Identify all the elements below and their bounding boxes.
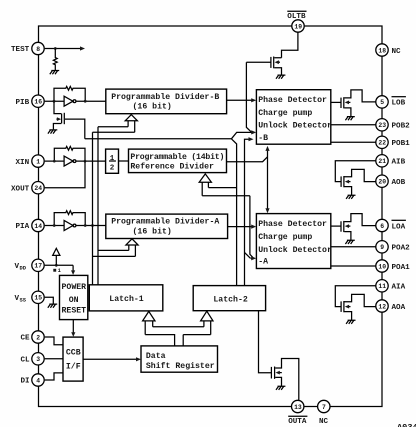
wire branch down to Latch-2 (left)	[232, 139, 237, 286]
svg-text:14: 14	[34, 223, 42, 230]
hollow arrow into Reference Divider	[199, 174, 211, 196]
svg-text:TEST: TEST	[11, 46, 30, 54]
wire Divider-B output to U-B	[227, 98, 257, 102]
wire pin 19 to Q2 drain	[282, 32, 298, 57]
pin 7 NC	[318, 400, 330, 426]
transistor Q4 (AIB/AOB amp)	[341, 169, 376, 195]
wire U-B to pin 23 POB2	[331, 124, 376, 126]
pin 6 LOA	[376, 219, 406, 231]
wire PIB buffer output to Divider-B	[76, 100, 106, 103]
svg-text:CL: CL	[21, 356, 31, 364]
svg-text:POB2: POB2	[392, 123, 411, 131]
svg-text:POWER: POWER	[62, 283, 87, 292]
svg-text:1: 1	[58, 268, 61, 274]
svg-text:PIB: PIB	[16, 99, 30, 107]
svg-text:Programmable Divider-B: Programmable Divider-B	[111, 92, 219, 102]
pin 15 VSS	[15, 291, 45, 303]
svg-text:NC: NC	[319, 418, 329, 426]
hollow arrow into Divider-B	[125, 115, 137, 133]
pin 3 CL	[21, 353, 45, 365]
svg-text:Programmable (14bit): Programmable (14bit)	[130, 152, 224, 162]
svg-text:6: 6	[380, 223, 384, 230]
svg-text:13: 13	[294, 404, 302, 411]
resistor R1 (TEST pulldown)	[53, 49, 57, 71]
svg-text:16: 16	[34, 99, 42, 106]
svg-text:1: 1	[36, 158, 40, 165]
transistor Q7 (OUTA open-drain driver)	[271, 359, 298, 401]
wire U-B to pin 22 POB1	[331, 141, 376, 143]
block: Programmable Divider-B	[106, 89, 227, 114]
wire bus v2	[97, 127, 99, 285]
pin 17 VDD	[15, 259, 45, 271]
svg-text:Reference Divider: Reference Divider	[130, 161, 214, 171]
wire PIB input node	[45, 100, 64, 103]
transistor Q1 (PIB pin driver, mirrored)	[53, 101, 84, 139]
svg-text:9: 9	[380, 244, 384, 251]
svg-text:Data: Data	[146, 352, 166, 361]
svg-text:AOB: AOB	[392, 179, 406, 187]
note marker *1	[53, 268, 61, 274]
svg-text:2: 2	[36, 334, 40, 341]
svg-text:Phase Detector: Phase Detector	[258, 219, 327, 229]
block: Phase Detector / Charge pump / Unlock Detector -A (U-A)	[256, 214, 332, 269]
svg-text:Latch-2: Latch-2	[213, 295, 247, 305]
svg-text:AIB: AIB	[392, 159, 406, 167]
wire pin 21 AIB to Q4 gate	[335, 161, 376, 182]
inverter G2 (XIN oscillator)	[64, 156, 76, 166]
inverter G1 (PIB buffer)	[64, 96, 76, 106]
pin 4 DI	[21, 374, 45, 386]
ground (Q5)	[345, 240, 354, 244]
ground (PIB transistor)	[48, 130, 57, 134]
pin 10 POA1	[376, 260, 410, 272]
svg-text:CCB: CCB	[66, 349, 81, 358]
wire CE to CCB I/F	[45, 337, 63, 345]
svg-text:17: 17	[34, 263, 42, 270]
svg-text:I/F: I/F	[66, 362, 81, 372]
pin 16 PIB	[16, 95, 45, 107]
svg-text:19: 19	[294, 23, 302, 30]
svg-text:Charge pump: Charge pump	[258, 232, 312, 242]
wire unlock-B node: Q2 gate down to -B input	[246, 62, 251, 132]
svg-text:20: 20	[378, 179, 386, 186]
block: Latch-1	[89, 285, 163, 311]
wire divider-B arrow feeds	[93, 127, 135, 133]
svg-text:POB1: POB1	[392, 140, 411, 148]
wire pin 11 AIA to Q6 gate	[335, 286, 376, 307]
pin 14 PIA	[16, 219, 45, 231]
svg-text:XIN: XIN	[16, 159, 30, 167]
svg-text:Shift Register: Shift Register	[146, 361, 215, 371]
wire PIA buffer output to Divider-A	[76, 224, 106, 227]
svg-text:Unlock Detector: Unlock Detector	[258, 120, 332, 130]
svg-text:5: 5	[380, 99, 384, 106]
svg-text:(16 bit): (16 bit)	[133, 226, 172, 236]
svg-text:LOB: LOB	[392, 100, 406, 108]
ground (Q7)	[276, 386, 285, 390]
svg-text:POA1: POA1	[392, 264, 411, 272]
svg-text:2: 2	[110, 165, 115, 173]
pin 1 XIN	[16, 155, 45, 167]
node -A input arrow	[251, 256, 257, 260]
wire PIA input node	[45, 224, 64, 227]
wire XOUT to oscillator node	[45, 161, 85, 188]
wire reference divider output node	[119, 157, 268, 162]
transistor Q5 (LOA open-drain driver)	[331, 214, 376, 241]
svg-text:XOUT: XOUT	[11, 185, 30, 193]
pin 19 OLTB	[287, 11, 306, 32]
svg-text:Programmable Divider-A: Programmable Divider-A	[111, 217, 219, 227]
svg-text:1: 1	[110, 155, 115, 163]
wire DI to CCB I/F	[45, 373, 63, 380]
pin 23 POB2	[376, 119, 410, 131]
svg-text:Charge pump: Charge pump	[258, 108, 312, 118]
ground (Q3)	[345, 117, 354, 121]
svg-text:-A: -A	[258, 257, 268, 266]
bus trunk from Data Shift Register to latches	[145, 327, 211, 346]
node -B input arrow	[251, 130, 256, 134]
svg-text:22: 22	[378, 140, 386, 147]
pin 5 LOB	[376, 96, 406, 108]
ground (Q2)	[276, 75, 285, 79]
svg-text:8: 8	[36, 46, 40, 53]
pin 21 AIB	[376, 155, 406, 167]
resistor R4 (PIA feedback)	[54, 211, 85, 226]
ground (VSS)	[48, 304, 57, 308]
transistor Q3 (LOB open-drain driver)	[331, 90, 376, 117]
wire ref arrow feeds	[202, 188, 250, 196]
svg-text:DD: DD	[20, 265, 27, 271]
svg-text:ON: ON	[69, 296, 79, 305]
block: CCB I/F	[63, 337, 83, 381]
pin 24 XOUT	[11, 182, 44, 194]
svg-text:OLTB: OLTB	[287, 13, 306, 21]
svg-text:24: 24	[34, 185, 42, 192]
svg-text:Latch-1: Latch-1	[109, 294, 143, 304]
block: Data Shift Register	[141, 346, 218, 372]
hollow arrow into Latch-2	[201, 311, 213, 334]
pin 13 OUTA	[288, 400, 307, 426]
pin 22 POB1	[376, 136, 410, 148]
wire U-A to pin 9 POA2	[331, 246, 376, 248]
wire divider-A arrow feeds	[93, 250, 136, 256]
svg-text:AIA: AIA	[392, 284, 406, 292]
wire bus v1	[92, 132, 94, 285]
inverter G3 (PIA buffer)	[64, 221, 76, 231]
svg-text:11: 11	[378, 283, 386, 290]
ground (Q6)	[346, 320, 355, 324]
hollow arrow into Divider-A	[126, 239, 138, 257]
svg-text:23: 23	[378, 122, 386, 129]
resistor R3 (XIN feedback)	[54, 146, 85, 161]
wire XIN input node	[45, 160, 64, 163]
svg-text:15: 15	[34, 295, 42, 302]
pin 11 AIA	[376, 280, 406, 292]
block: POWER ON RESET	[60, 275, 88, 319]
wire VSS to ground	[45, 297, 54, 304]
wire XIN buffer output to 1/2	[76, 160, 106, 163]
wire TEST output with arrow	[45, 46, 85, 50]
svg-text:A0347: A0347	[397, 423, 416, 427]
ground (Q4)	[346, 195, 355, 199]
svg-text:AOA: AOA	[392, 304, 406, 312]
wire Latch-2 to Q7 gate	[259, 311, 272, 373]
svg-text:RESET: RESET	[62, 307, 87, 316]
wire PIB gate bus to -B input	[85, 132, 253, 138]
block: 1/2 prescaler	[106, 149, 119, 173]
svg-text:LOA: LOA	[392, 223, 406, 231]
wire VDD to POWER ON RESET (arrow down)	[71, 265, 75, 275]
wire U-A to pin 10 POA1	[331, 265, 376, 267]
svg-text:-B: -B	[258, 134, 268, 143]
wire ref to U-B (arrow up) and U-A (arrow down)	[265, 146, 269, 213]
svg-text:4: 4	[36, 377, 40, 384]
svg-text:3: 3	[36, 356, 40, 363]
svg-text:Unlock Detector: Unlock Detector	[258, 245, 332, 255]
wire branch to Latch-2 (right) with stub arrow into U-B	[245, 137, 254, 286]
block: Programmable Divider-A	[106, 214, 228, 238]
svg-text:OUTA: OUTA	[288, 418, 307, 426]
resistor R2 (PIB feedback)	[54, 86, 85, 101]
ground (TEST)	[50, 71, 59, 75]
svg-text:Phase Detector: Phase Detector	[258, 95, 327, 105]
pin 2 CE	[21, 331, 45, 343]
block: Programmable Reference Divider (14bit)	[129, 149, 227, 173]
block: Phase Detector / Charge pump / Unlock Detector -B (U-B)	[256, 90, 332, 145]
IC boundary border	[39, 26, 383, 407]
transistor Q2 (OLTB open-drain driver)	[246, 57, 281, 75]
svg-text:NC: NC	[392, 48, 402, 56]
pin 8 TEST	[11, 42, 44, 54]
wire CCB to Data Shift Register (arrow right)	[83, 357, 141, 361]
hollow arrow into Latch-1	[143, 311, 155, 334]
svg-text:POA2: POA2	[392, 245, 411, 253]
wire Divider-A output to U-A	[228, 225, 257, 229]
svg-text:SS: SS	[20, 297, 27, 303]
svg-text:PIA: PIA	[16, 223, 30, 231]
wire VDD rail	[45, 255, 73, 266]
pin 20 AOB	[376, 175, 406, 187]
block: Latch-2	[193, 286, 265, 311]
svg-text:21: 21	[378, 158, 386, 165]
svg-text:CE: CE	[21, 335, 31, 343]
pin 12 AOA	[376, 300, 406, 312]
svg-text:7: 7	[322, 404, 326, 411]
wire CL to CCB I/F	[45, 358, 63, 360]
svg-text:(16 bit): (16 bit)	[133, 101, 172, 111]
svg-text:10: 10	[378, 263, 386, 270]
transistor Q6 (AIA/AOA amp)	[341, 294, 376, 320]
VDD supply symbol (open triangle)	[53, 248, 60, 255]
pin 18 NC	[376, 44, 401, 56]
wire -A unlock feed diagonals	[245, 196, 253, 259]
svg-text:18: 18	[378, 47, 386, 54]
pin 9 POA2	[376, 241, 410, 253]
wire POWER ON RESET to CCB (arrow down)	[71, 320, 75, 337]
svg-text:12: 12	[378, 303, 386, 310]
svg-text:DI: DI	[21, 378, 30, 386]
